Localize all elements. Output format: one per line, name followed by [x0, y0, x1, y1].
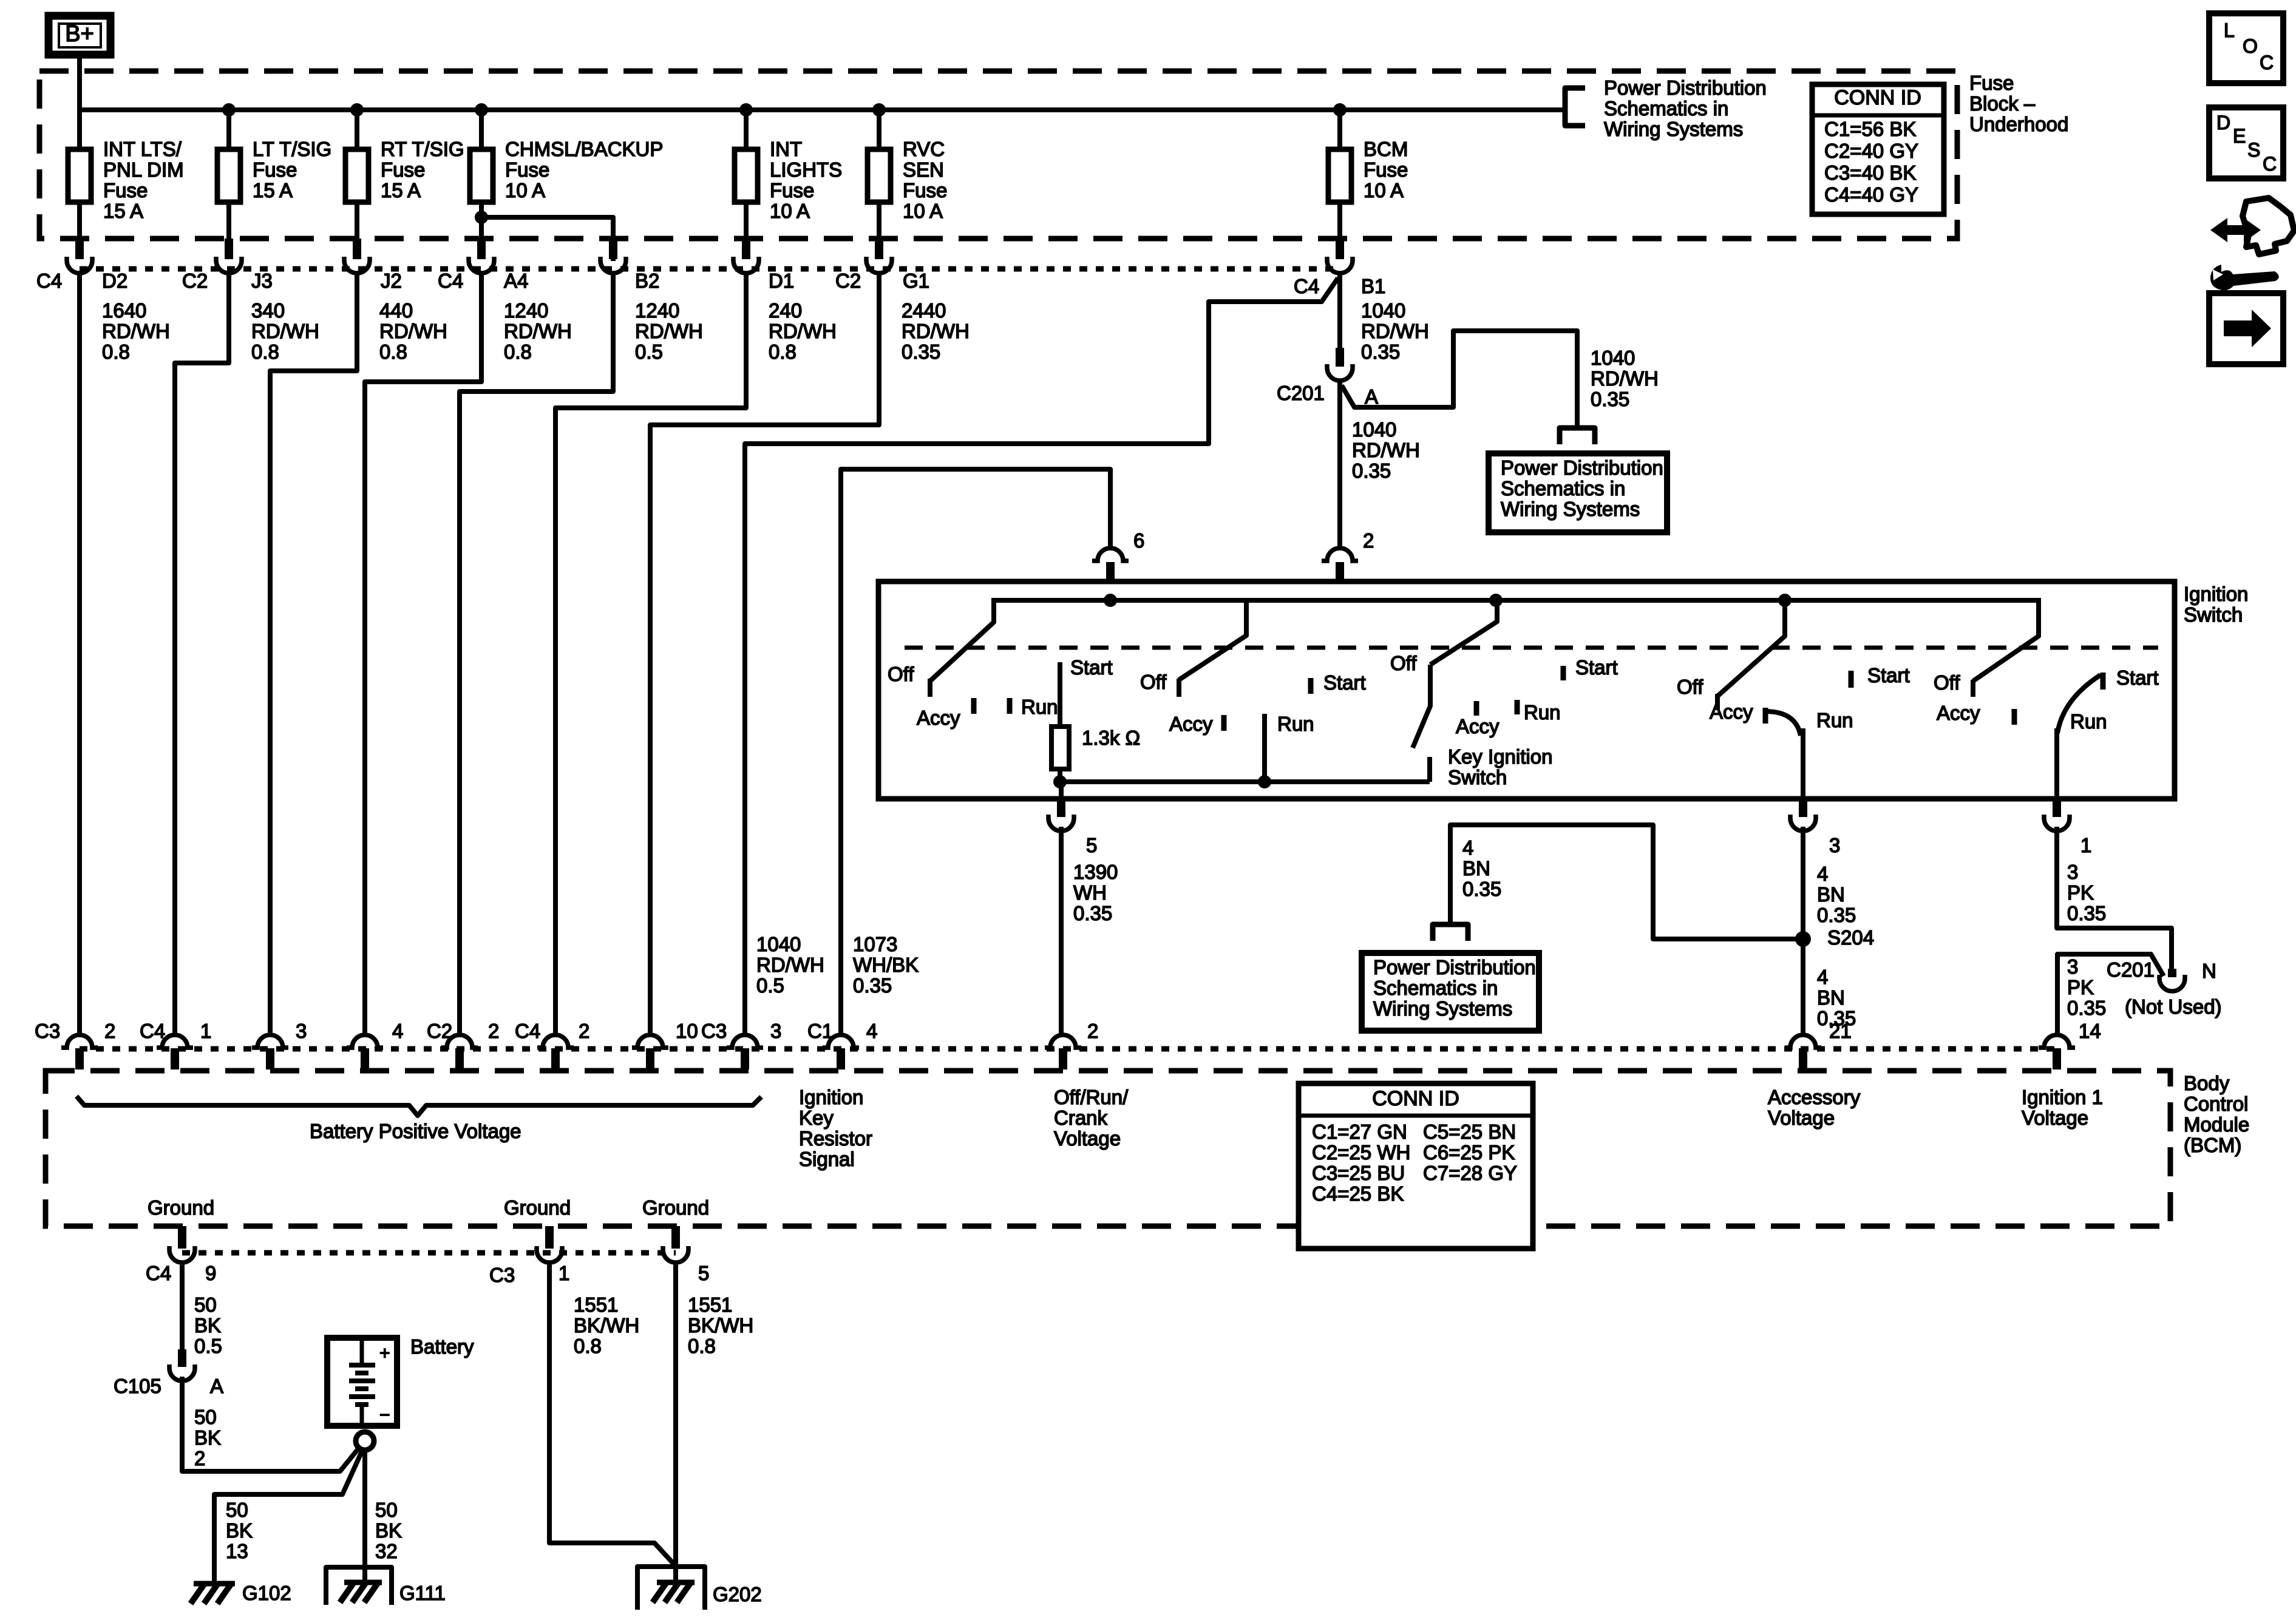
BCM pin socket x=1227	[727, 1035, 763, 1048]
BCM pin stub x=3388	[2053, 1048, 2061, 1070]
BCM dashed border	[46, 1071, 2170, 1226]
svg-text:2: 2	[194, 1447, 205, 1470]
label Ignition 1 Voltage	[2022, 1086, 2103, 1129]
label pin 5	[1086, 834, 1097, 856]
wire resistor to rail	[1058, 769, 1062, 782]
svg-text:Ground: Ground	[148, 1196, 214, 1219]
label Ground 3	[642, 1196, 709, 1219]
connector C201 A stub	[1336, 348, 1344, 367]
wire label 4 BN 0.35 (upper)	[1817, 863, 1856, 926]
svg-text:50: 50	[226, 1499, 248, 1521]
BCM pin socket x=2970	[1785, 1035, 1821, 1048]
svg-text:0.35: 0.35	[2067, 902, 2106, 924]
wire 1551 BK/WH (C3-1) to G202	[549, 1263, 676, 1566]
svg-text:Wiring Systems: Wiring Systems	[1373, 997, 1512, 1020]
F4 CHMSL/BACKUP fuse	[470, 149, 493, 202]
svg-text:Accy: Accy	[1169, 713, 1213, 735]
connector C105 stub	[178, 1349, 186, 1367]
wire S204 branch to off-page	[1450, 825, 1803, 939]
wire 50 BK 0.5	[180, 1263, 185, 1351]
bus junction dot pin 6	[1104, 594, 1117, 607]
wire 50 BK 2 to battery negative	[182, 1377, 358, 1471]
svg-text:C4: C4	[515, 1020, 540, 1042]
off-page bracket 4 BN	[1433, 924, 1468, 941]
label S204	[1827, 926, 1874, 949]
label Ignition Key Resistor Signal	[799, 1086, 872, 1170]
svg-text:3: 3	[2067, 861, 2078, 883]
svg-text:Ground: Ground	[642, 1196, 709, 1219]
ground G111	[340, 1582, 446, 1604]
svg-text:Accessory: Accessory	[1768, 1086, 1861, 1108]
BCM pin socket x=131	[61, 1035, 98, 1048]
svg-text:Underhood: Underhood	[1969, 113, 2068, 135]
connector C4 A4 stub	[477, 239, 486, 259]
svg-text:10 A: 10 A	[505, 179, 545, 202]
label pin 3	[1829, 834, 1840, 856]
labels ground connectors	[146, 1262, 709, 1286]
BCM pin socket x=601	[347, 1035, 383, 1048]
off-page bracket 1040	[1560, 428, 1595, 444]
svg-text:BN: BN	[1817, 883, 1845, 906]
label Ground 2	[504, 1196, 571, 1219]
svg-text:BK: BK	[194, 1426, 221, 1449]
svg-text:0.8: 0.8	[379, 341, 407, 363]
S4 Off label	[1677, 676, 1703, 698]
S2 Run contact wire	[1262, 714, 1267, 782]
BCM pin socket x=1071	[632, 1035, 668, 1048]
svg-text:Ignition 1: Ignition 1	[2022, 1086, 2103, 1108]
svg-text:13: 13	[226, 1540, 248, 1562]
svg-text:1040: 1040	[1361, 299, 1405, 322]
svg-text:WH/BK: WH/BK	[853, 954, 919, 976]
svg-text:0.35: 0.35	[1591, 388, 1629, 410]
svg-text:2: 2	[1363, 529, 1374, 552]
svg-text:Off/Run/: Off/Run/	[1054, 1086, 1129, 1108]
B+ battery positive symbol	[49, 16, 110, 55]
svg-text:21: 21	[1829, 1020, 1852, 1042]
resistor signal rail	[1059, 779, 1430, 784]
svg-text:C1=56 BK: C1=56 BK	[1824, 118, 1916, 140]
BCM pin stub x=131	[75, 1048, 84, 1070]
svg-text:BK: BK	[375, 1519, 402, 1542]
label F3 RT T/SIG fuse	[381, 138, 464, 202]
svg-text:G111: G111	[399, 1582, 446, 1604]
svg-text:Block –: Block –	[1969, 92, 2036, 115]
bus junction dot S4	[1778, 594, 1792, 607]
label Accessory Voltage	[1768, 1086, 1861, 1129]
ground connector C3 1 socket	[537, 1246, 562, 1263]
svg-text:0.8: 0.8	[574, 1335, 602, 1357]
svg-text:2: 2	[488, 1020, 499, 1042]
S4 Accy label	[1710, 700, 1765, 724]
svg-text:RD/WH: RD/WH	[769, 320, 837, 342]
pin 1 stub	[2053, 799, 2061, 817]
svg-text:Accy: Accy	[1456, 715, 1500, 737]
svg-text:C1=27 GN: C1=27 GN	[1312, 1120, 1407, 1143]
svg-text:1: 1	[2080, 834, 2091, 856]
wire 1040 RD/WH to ignition switch pin 2	[1337, 382, 1342, 548]
svg-text:4: 4	[866, 1020, 877, 1042]
svg-text:Wiring Systems: Wiring Systems	[1501, 498, 1640, 520]
svg-text:Fuse: Fuse	[1969, 72, 2014, 94]
label Off/Run/Crank Voltage	[1054, 1086, 1129, 1150]
bus bar from B+ feed	[80, 107, 1564, 112]
CHMSL branch junction dot	[475, 211, 488, 224]
wire label 2440 RD/WH	[902, 299, 970, 363]
F5 INT LIGHTS fuse	[735, 149, 758, 202]
BCM pin stub x=445	[266, 1048, 274, 1070]
S3 Run tick and label	[1517, 700, 1561, 724]
label 1.3k ohm	[1082, 727, 1140, 749]
svg-text:4: 4	[1817, 863, 1828, 885]
label pin 2	[1363, 529, 1374, 552]
wire label 3 PK 0.35 (lower)	[2067, 955, 2106, 1019]
svg-text:J2: J2	[381, 269, 402, 292]
connector C201 N socket	[2159, 975, 2185, 991]
icon right arrow box	[2209, 293, 2283, 364]
junction dot fuse RT T/SIG	[350, 103, 364, 117]
svg-text:G202: G202	[713, 1583, 762, 1605]
svg-text:RD/WH: RD/WH	[251, 320, 319, 342]
svg-text:PK: PK	[2067, 976, 2094, 998]
svg-text:Start: Start	[1867, 664, 1910, 686]
F7 BCM fuse	[1328, 149, 1351, 202]
ground connector 5 socket	[663, 1246, 688, 1263]
svg-text:B+: B+	[65, 21, 94, 47]
svg-text:15 A: 15 A	[253, 179, 293, 202]
S5 Run-Start bridge curve	[2057, 675, 2101, 733]
S5 Off label	[1934, 671, 1960, 694]
svg-text:6: 6	[1133, 529, 1144, 552]
svg-text:C6=25 PK: C6=25 PK	[1423, 1141, 1515, 1164]
connector C2 G1 socket	[866, 257, 892, 273]
svg-text:Accy: Accy	[1710, 700, 1753, 723]
wire 1073 WH/BK BCM4 to ignition pin 6	[841, 469, 1110, 1033]
BCM pin stub x=1227	[741, 1048, 749, 1070]
junction dot fuse BCM	[1333, 103, 1347, 117]
wire label 4 BN 0.35 (lower)	[1817, 966, 1856, 1029]
svg-text:0.8: 0.8	[504, 341, 532, 363]
F2 LT T/SIG fuse	[217, 149, 240, 202]
svg-text:D2: D2	[102, 269, 127, 292]
svg-text:RD/WH: RD/WH	[1352, 439, 1420, 461]
S4 Run contact wire	[1801, 728, 1805, 799]
svg-text:C3: C3	[489, 1264, 515, 1286]
label F7 BCM fuse	[1364, 138, 1408, 202]
S3 Start tick and label	[1563, 656, 1618, 680]
svg-text:1551: 1551	[688, 1293, 732, 1316]
ignition pin 6 socket	[1092, 548, 1129, 561]
svg-text:Crank: Crank	[1054, 1107, 1108, 1129]
wire 1390 WH to BCM 2	[1059, 827, 1064, 1033]
wire label 1040 RD/WH 0.35 (to pin 2)	[1352, 418, 1420, 482]
pin 5 socket	[1048, 815, 1074, 831]
S1 Off label	[888, 663, 914, 685]
svg-text:Start: Start	[1323, 671, 1366, 694]
pin 1 socket	[2044, 815, 2070, 831]
connector C4 B1 socket	[1327, 257, 1353, 273]
label Battery Positive Voltage	[310, 1120, 521, 1142]
S1 Start label	[1070, 656, 1113, 679]
wire pin3 to S204	[1801, 827, 1805, 939]
wire battery negative to G111	[362, 1450, 367, 1582]
wire 1640 RD/WH to BCM C3-2	[77, 272, 82, 1033]
svg-text:3: 3	[296, 1020, 307, 1042]
svg-text:PNL DIM: PNL DIM	[103, 158, 184, 181]
ground connector 5 stub	[671, 1226, 680, 1249]
svg-text:C3: C3	[701, 1020, 727, 1042]
ignition pin 6 stub	[1106, 562, 1115, 583]
svg-text:10 A: 10 A	[770, 200, 810, 222]
svg-text:RD/WH: RD/WH	[635, 320, 703, 342]
svg-text:LT T/SIG: LT T/SIG	[253, 138, 331, 160]
svg-text:C3: C3	[35, 1020, 60, 1042]
label Fuse Block - Underhood	[1969, 72, 2068, 135]
svg-text:Fuse: Fuse	[770, 179, 814, 202]
svg-text:Power Distribution: Power Distribution	[1373, 956, 1536, 978]
svg-text:Voltage: Voltage	[1054, 1127, 1121, 1150]
svg-text:E: E	[2233, 125, 2246, 147]
svg-text:Run: Run	[1277, 713, 1314, 735]
wire label 1640 RD/WH	[102, 299, 170, 363]
svg-text:15 A: 15 A	[381, 179, 421, 202]
svg-text:A: A	[210, 1375, 223, 1397]
labels BCM top connector row	[35, 1020, 2101, 1042]
svg-text:1040: 1040	[756, 933, 801, 955]
S1 Run tick and label	[1010, 696, 1058, 718]
wire bus to F7 BCM fuse	[1337, 110, 1342, 240]
svg-text:C201: C201	[1277, 382, 1325, 404]
svg-text:50: 50	[194, 1406, 217, 1428]
svg-text:SEN: SEN	[903, 158, 944, 181]
label C201 N	[2107, 958, 2216, 982]
S3 wiper arm	[1430, 598, 1497, 665]
svg-text:S: S	[2247, 139, 2260, 161]
svg-text:C1: C1	[807, 1020, 833, 1042]
svg-text:Start: Start	[1070, 656, 1113, 679]
svg-text:Power Distribution: Power Distribution	[1604, 76, 1767, 99]
label F4 CHMSL/BACKUP fuse	[505, 138, 663, 202]
svg-text:14: 14	[2079, 1020, 2101, 1042]
connector C4 D2 stub	[75, 239, 84, 259]
label Body Control Module (BCM)	[2184, 1072, 2249, 1156]
S5 wiper arm	[1973, 598, 2039, 697]
Power Distribution Schematics reference box (upper)	[1489, 453, 1667, 532]
svg-text:Switch: Switch	[1448, 766, 1507, 788]
svg-text:C4: C4	[1294, 275, 1319, 297]
svg-text:C201: C201	[2107, 958, 2155, 981]
svg-text:BN: BN	[1817, 986, 1845, 1009]
svg-text:S204: S204	[1827, 926, 1874, 949]
BCM pin stub x=601	[361, 1048, 369, 1070]
bus junction dot S3	[1489, 594, 1503, 607]
svg-text:BCM: BCM	[1364, 138, 1408, 160]
svg-text:CONN ID: CONN ID	[1372, 1087, 1459, 1110]
svg-text:C4: C4	[146, 1262, 171, 1284]
svg-text:0.8: 0.8	[102, 341, 130, 363]
label F5 INT LIGHTS fuse	[770, 138, 842, 222]
connector D1 socket	[733, 257, 759, 273]
BCM pin socket x=757	[441, 1035, 478, 1048]
svg-text:0.35: 0.35	[853, 974, 892, 997]
svg-text:340: 340	[251, 299, 285, 322]
wire label 1240 RD/WH	[504, 299, 572, 363]
off-page bracket to Power Distribution Schematics	[1565, 88, 1585, 126]
ground G102	[191, 1582, 291, 1604]
svg-text:RD/WH: RD/WH	[379, 320, 447, 342]
svg-text:RVC: RVC	[903, 138, 945, 160]
svg-text:2: 2	[104, 1020, 115, 1042]
battery positive voltage bracket	[76, 1096, 761, 1116]
wire 340 RD/WH to BCM C4-1	[175, 272, 229, 1033]
svg-text:3: 3	[2067, 955, 2078, 978]
svg-text:1.3k Ω: 1.3k Ω	[1082, 727, 1140, 749]
BCM pin stub x=2970	[1799, 1048, 1807, 1070]
icon DESC box	[2209, 107, 2283, 178]
svg-text:G102: G102	[242, 1582, 291, 1604]
S4 Accy-Run bridge curve	[1765, 711, 1801, 736]
BCM pin socket x=3388	[2039, 1035, 2075, 1048]
svg-text:Off: Off	[1934, 671, 1960, 694]
S5 Accy label	[1937, 702, 2014, 725]
connector C2 J3 stub	[225, 239, 233, 259]
connector C4 D2 socket	[67, 257, 92, 273]
svg-text:Module: Module	[2184, 1113, 2249, 1136]
BCM pin stub x=915	[551, 1048, 560, 1070]
label Power Distribution Schematics in Wiring Systems (top)	[1604, 76, 1767, 140]
svg-text:A: A	[1365, 385, 1378, 408]
wire label 50 BK 2	[194, 1406, 221, 1470]
wire CHMSL branch to B2 output	[481, 217, 613, 261]
svg-text:C4: C4	[140, 1020, 165, 1042]
wire pin1 to C201 N	[2057, 827, 2172, 974]
icon double arrow with hand and wrench	[2210, 198, 2294, 290]
wire rail to pin5	[1059, 782, 1064, 800]
S3 Off label	[1390, 652, 1417, 674]
wire label 340 RD/WH	[251, 299, 319, 363]
svg-text:0.5: 0.5	[756, 974, 784, 997]
label Not Used	[2125, 995, 2222, 1018]
svg-text:Run: Run	[2070, 710, 2107, 733]
BCM pin socket x=915	[537, 1035, 574, 1048]
F1 INT LTS/PNL DIM fuse	[68, 149, 91, 202]
svg-text:1240: 1240	[504, 299, 548, 322]
svg-text:+: +	[379, 1343, 390, 1363]
key ignition switch blade	[1413, 665, 1430, 782]
svg-text:9: 9	[205, 1262, 216, 1284]
svg-text:Run: Run	[1524, 701, 1561, 724]
F6 RVC SEN fuse	[868, 149, 891, 202]
svg-text:0.35: 0.35	[2067, 997, 2106, 1019]
S3 Accy label	[1456, 701, 1500, 737]
svg-text:B1: B1	[1361, 275, 1385, 297]
svg-text:Key Ignition: Key Ignition	[1448, 745, 1552, 768]
junction dot fuse RVC SEN	[872, 103, 886, 117]
battery internal symbol	[349, 1338, 390, 1426]
svg-text:BK: BK	[194, 1314, 221, 1337]
svg-text:RD/WH: RD/WH	[1361, 320, 1429, 342]
svg-text:C4: C4	[438, 269, 463, 292]
BCM pin stub x=1385	[837, 1048, 845, 1070]
S4 Start tick and label	[1851, 664, 1910, 688]
svg-text:WH: WH	[1073, 881, 1107, 904]
wire 2440 RD/WH to BCM 10-C3	[650, 274, 879, 1033]
wire battery negative to G102	[214, 1450, 362, 1582]
ground connector C4 9 socket	[169, 1246, 195, 1263]
junction dot fuse CHMSL	[475, 103, 488, 117]
ground G111 bracket	[326, 1567, 392, 1605]
svg-text:Fuse: Fuse	[381, 158, 425, 181]
connector C201 N stub	[2168, 969, 2176, 977]
svg-text:4: 4	[392, 1020, 403, 1042]
svg-text:Accy: Accy	[1937, 702, 1980, 724]
pin 3 socket	[1790, 815, 1816, 831]
label F6 RVC SEN fuse	[903, 138, 947, 222]
pin 3 stub	[1799, 799, 1807, 817]
svg-text:BN: BN	[1462, 857, 1490, 880]
svg-text:Run: Run	[1021, 696, 1058, 718]
svg-text:C: C	[2263, 153, 2277, 175]
svg-text:PK: PK	[2067, 881, 2094, 904]
svg-text:C4=25 BK: C4=25 BK	[1312, 1182, 1404, 1205]
svg-text:C2: C2	[182, 269, 208, 292]
svg-text:RD/WH: RD/WH	[1591, 367, 1659, 390]
wire label 50 BK 13	[226, 1499, 253, 1562]
connector C2 J3 socket	[216, 257, 242, 273]
svg-text:2: 2	[579, 1020, 589, 1042]
rail junction dot (S2 run)	[1258, 775, 1271, 788]
svg-text:CHMSL/BACKUP: CHMSL/BACKUP	[505, 138, 663, 160]
svg-text:Off: Off	[1390, 652, 1417, 674]
svg-text:Start: Start	[1575, 656, 1618, 679]
svg-text:10 A: 10 A	[903, 200, 943, 222]
svg-text:15 A: 15 A	[103, 200, 143, 222]
svg-text:C5=25 BN: C5=25 BN	[1423, 1120, 1516, 1143]
connector C2 G1 stub	[875, 239, 883, 259]
BCM pin socket x=288	[157, 1035, 193, 1048]
svg-text:Ignition: Ignition	[2184, 583, 2248, 605]
svg-text:Control: Control	[2184, 1093, 2248, 1115]
svg-text:32: 32	[375, 1540, 398, 1562]
svg-text:RD/WH: RD/WH	[504, 320, 572, 342]
S5 Run label	[2070, 710, 2107, 733]
svg-text:Fuse: Fuse	[903, 179, 947, 202]
svg-text:1040: 1040	[1352, 418, 1396, 441]
S5 Start tick and label	[2103, 666, 2159, 690]
wire label 1390 WH 0.35	[1073, 861, 1118, 924]
svg-text:BK: BK	[226, 1519, 253, 1542]
connector dotted line (fuse block outputs)	[80, 266, 1340, 272]
wire C201 branch to off-page	[1342, 331, 1577, 428]
svg-text:(Not Used): (Not Used)	[2125, 995, 2222, 1018]
svg-text:C2: C2	[427, 1020, 452, 1042]
wire label 1240 RD/WH	[635, 299, 703, 363]
S1 Accy label	[917, 698, 974, 729]
wire 1240 RD/WH to BCM 4	[365, 274, 481, 1033]
svg-text:Resistor: Resistor	[799, 1127, 872, 1150]
junction dot fuse INT LIGHTS	[739, 103, 753, 117]
wire label 1040 RD/WH 0.35 (BCM fuse output)	[1361, 299, 1429, 363]
svg-text:50: 50	[375, 1499, 398, 1521]
svg-text:3: 3	[1829, 834, 1840, 856]
label F1 INT LTS/PNL DIM fuse	[103, 138, 184, 222]
labels connector row 1	[36, 269, 929, 292]
resistor 1.3k	[1051, 727, 1069, 769]
svg-text:Voltage: Voltage	[1768, 1107, 1835, 1129]
svg-text:INT LTS/: INT LTS/	[103, 138, 182, 160]
svg-text:0.8: 0.8	[688, 1335, 716, 1357]
svg-text:1390: 1390	[1073, 861, 1118, 883]
